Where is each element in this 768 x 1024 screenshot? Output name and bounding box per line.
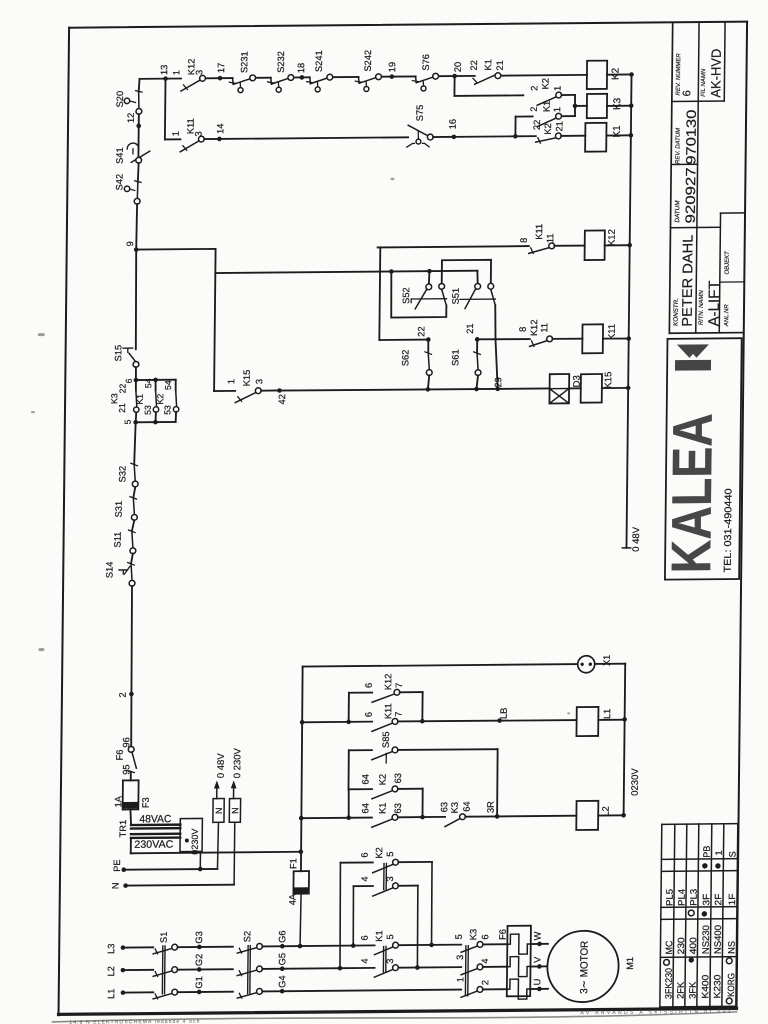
wire top rail [140,75,587,79]
svg-text:0 48V: 0 48V [216,753,227,779]
node above S52 [427,269,432,284]
svg-text:230: 230 [676,937,686,954]
svg-text:K2: K2 [378,774,388,785]
svg-text:S61: S61 [450,349,460,366]
node 16 [433,119,458,139]
wire rail 9 [135,249,216,392]
coil K11 [552,324,618,354]
contact K3 (22-21) [109,380,139,422]
svg-text:1: 1 [226,379,236,384]
wire coil K15 to 48V bus [602,386,631,391]
switch S242 [355,50,382,92]
terminal PE [112,851,218,872]
node L3 bus junction [298,944,303,949]
svg-text:22: 22 [469,60,479,70]
contact K1 NO (2-1) [529,100,575,126]
motor M1 [547,930,635,1002]
wire bottom rail 42-29 [279,386,549,393]
svg-text:6: 6 [360,935,370,940]
svg-text:G5: G5 [277,953,287,965]
wire rail to K12 coil [378,246,529,247]
table row 3FK230 [663,889,674,999]
svg-text:2: 2 [529,86,539,91]
wire L3 row to motor [300,944,548,946]
svg-text:3∼ MOTOR: 3∼ MOTOR [578,940,591,993]
switch S2 [237,931,263,998]
svg-text:A-LIFT: A-LIFT [706,280,723,326]
svg-text:LB: LB [499,708,509,719]
wire top-left corner down [138,79,141,92]
svg-text:TR1: TR1 [118,820,128,838]
svg-text:63: 63 [393,773,403,783]
svg-text:0 230V: 0 230V [232,747,243,778]
svg-text:S52: S52 [401,287,411,304]
node 18 [296,63,306,80]
wire node 9 down to S15 [135,250,137,350]
svg-text:11: 11 [545,233,555,243]
wire S11-S14 [131,554,133,564]
wire from node 13 down to K11 rail [164,79,167,140]
switch S241 [306,50,333,92]
terminal LB [497,708,508,723]
svg-text:S231: S231 [239,51,249,73]
svg-text:21: 21 [495,60,505,70]
contactor K1 pole 1 (6-5) [360,930,399,955]
svg-text:53: 53 [143,405,153,415]
wire corner to S51 [476,271,479,284]
svg-text:6: 6 [364,712,374,717]
wire node20 branch down [454,75,523,96]
KALEA logo block frame [665,338,742,579]
svg-text:K1: K1 [542,101,552,112]
svg-text:22: 22 [532,120,542,130]
svg-text:2: 2 [118,692,128,697]
svg-text:13: 13 [159,65,169,75]
svg-text:96: 96 [121,737,131,747]
svg-text:3FK230: 3FK230 [664,968,674,999]
node 22 [379,247,431,342]
svg-text:64: 64 [360,774,370,784]
contact K1 NC (22-21) [469,59,505,84]
svg-text:6: 6 [124,378,134,383]
svg-text:K2: K2 [374,847,384,858]
svg-text:1: 1 [455,977,465,982]
svg-text:FIL NAMN: FIL NAMN [701,68,707,97]
terminal L2 [106,966,125,977]
contact block bottom node 5 [117,403,176,425]
terminal G1 [178,976,233,994]
wire K1-contact to lower rail [513,116,533,138]
svg-text:54: 54 [163,380,173,390]
svg-text:K2: K2 [543,123,553,134]
wire coil K11 to 48V bus [603,336,631,341]
svg-text:K1: K1 [374,930,384,941]
switch S20 [115,91,142,115]
svg-text:54: 54 [143,378,153,388]
terminal N [111,881,235,889]
table row 3FK [687,889,698,999]
svg-text:S242: S242 [363,50,373,72]
svg-text:L2: L2 [106,966,116,976]
svg-text:12: 12 [126,113,136,123]
svg-text:REV. DATUM: REV. DATUM [675,128,681,164]
svg-text:0230V: 0230V [630,768,641,796]
contact K2 NC (22-21) [515,119,564,143]
svg-text:F3: F3 [141,797,151,808]
svg-text:21: 21 [554,121,564,131]
svg-text:K1: K1 [378,803,388,814]
wire S31-S11 [132,520,134,531]
svg-text:3: 3 [455,955,465,960]
svg-text:S14: S14 [104,561,114,578]
switch S42 [114,163,141,204]
svg-text:NS: NS [727,941,737,954]
svg-text:5: 5 [385,934,395,939]
svg-text:4: 4 [360,958,370,963]
svg-text:K12: K12 [383,674,393,691]
svg-text:K3: K3 [612,97,623,110]
switch S75 [407,105,434,147]
svg-text:22: 22 [416,326,426,336]
contact K1 (54-53) [134,380,159,422]
terminal G6 [262,930,300,948]
svg-text:PL3: PL3 [689,889,699,906]
wire L1 to bus [598,719,624,721]
motor terminal V [530,956,547,969]
wire coil K1 to 48V bus [606,133,633,138]
svg-text:F6: F6 [115,749,125,760]
svg-text:L3: L3 [106,944,116,954]
svg-text:K230: K230 [712,974,722,998]
svg-text:3F: 3F [701,893,711,905]
transformer TR1 [118,809,181,851]
svg-text:2: 2 [529,106,539,111]
svg-text:AK-HVD: AK-HVD [708,48,724,97]
svg-text:N: N [111,882,121,889]
svg-text:S32: S32 [117,466,127,483]
svg-text:PE: PE [112,859,122,871]
svg-text:3R: 3R [486,801,496,813]
svg-text:K2: K2 [155,394,165,405]
svg-text:4: 4 [360,876,370,881]
svg-text:K15: K15 [242,370,252,387]
svg-text:6: 6 [681,90,693,96]
switch S231 contact [229,75,255,93]
wire 16 to latch column [454,135,516,138]
node 20 [452,62,463,79]
selection table grid [660,824,738,1007]
svg-text:3: 3 [194,131,204,136]
bridge wire S52 to S51 [442,260,491,284]
wire S14 to node 2 [131,586,133,694]
main switch S1 [153,931,179,998]
terminal L1 [106,988,125,999]
svg-text:64: 64 [462,801,472,811]
terminal L3 [106,943,125,954]
svg-text:17: 17 [216,63,226,73]
terminal box 0230V [180,818,202,854]
supply output 0 48V [212,753,227,869]
coil K15 [569,372,614,403]
contactor K3 pole 1 (5-6) [454,929,491,953]
switch S242 contact [355,74,381,92]
contact K2 (64-63) [348,773,423,818]
svg-text:9: 9 [125,241,135,246]
svg-text:4: 4 [480,958,490,963]
contactor K1 pole 2 (4-3) [340,958,461,978]
svg-text:3: 3 [254,379,264,384]
wire coil K12 to 48V bus [605,243,632,248]
fuse-switch F6 (95-96) [114,694,137,775]
contact K11 (8-11) [519,224,556,254]
svg-text:PL5: PL5 [665,889,675,906]
switch S51 [451,283,496,308]
svg-text:REV. NUMMER: REV. NUMMER [676,53,682,96]
svg-text:5: 5 [385,852,395,857]
svg-text:6: 6 [364,683,374,688]
svg-text:920927: 920927 [683,167,699,223]
svg-text:1: 1 [714,850,724,855]
bus left vertical [298,667,305,872]
coil K3 [587,94,624,119]
svg-text:PETER DAHL: PETER DAHL [679,234,696,326]
svg-text:1: 1 [171,70,181,75]
svg-text:DATUM: DATUM [674,200,681,223]
svg-text:S232: S232 [276,51,286,73]
svg-text:L1: L1 [106,989,116,999]
node 19 [387,62,397,79]
thermal overload F6 [497,926,531,1000]
svg-text:K11: K11 [383,703,393,719]
svg-text:K3: K3 [468,929,478,940]
svg-text:ANL.NR: ANL.NR [724,304,730,328]
svg-text:G6: G6 [277,930,287,942]
contactor K3 pole 2 (3-4) [455,954,507,975]
switch S32 [117,463,138,487]
switch S76 [412,54,438,91]
inductor L2 [497,801,611,831]
svg-text:16: 16 [448,119,458,129]
table row K230 [712,850,724,998]
switch S241 contact [306,74,332,92]
wire coil K2 to 48V bus [607,72,634,77]
svg-text:G2: G2 [194,954,204,966]
svg-text:64: 64 [360,803,370,813]
contact K12 (8-11) [518,319,553,346]
svg-text:K1: K1 [483,59,493,70]
wire X1 lamp row [303,664,626,667]
switch S41 emergency stop [115,126,150,164]
svg-text:S2: S2 [242,931,252,942]
svg-text:S11: S11 [113,532,123,548]
KALEA logo mark triangle [677,344,709,358]
wire transformer to bus [131,836,304,855]
switch S31 [114,497,138,521]
svg-text:K1: K1 [135,394,145,405]
svg-text:K12: K12 [529,319,539,336]
contactor K3 pole 3 (1-2) [455,977,507,998]
svg-text:L1: L1 [602,709,612,719]
svg-text:19: 19 [387,62,397,72]
contact K1 (64-63) [301,789,425,828]
svg-text:4A: 4A [287,893,297,905]
node 17 [216,63,226,81]
svg-text:KALEA: KALEA [659,413,724,574]
node 22 top junction [389,269,447,318]
svg-text:1: 1 [553,86,563,91]
motor terminal W [532,931,542,946]
svg-text:PB: PB [702,846,712,858]
wire S51 blade down to node 29 branch [494,305,498,389]
svg-text:3: 3 [194,70,204,75]
wire phase rows into S1 [122,947,153,992]
svg-text:18: 18 [296,63,306,73]
svg-text:5: 5 [454,934,464,939]
fuse F1 4A [287,858,309,946]
rectifier D3 [549,374,582,404]
svg-text:6: 6 [480,934,490,939]
contactor K2 pole 1 (6-5) [338,847,435,971]
svg-text:PL4: PL4 [677,889,687,906]
switch S14 [104,561,135,586]
svg-text:S: S [728,851,738,857]
switch S232 [267,51,294,92]
coil K12 [554,229,618,260]
contact K12 (6-7) branch [349,673,423,722]
svg-text:NS400: NS400 [713,925,723,954]
svg-text:400: 400 [688,937,698,954]
svg-text:7: 7 [393,711,403,716]
svg-text:V: V [532,956,542,963]
svg-text:3FK: 3FK [688,981,698,999]
contact K11 (6-7) [302,702,577,732]
wire coil K3 to 48V bus [607,103,634,108]
switch S61 [450,339,481,389]
svg-text:N: N [230,807,240,814]
wire rail 14 to S75 [219,137,408,139]
svg-text:63: 63 [393,803,403,813]
wire S15 to contact block [135,367,137,380]
contactor K2 linkage [384,863,387,889]
svg-text:K15: K15 [603,372,614,389]
svg-text:F1: F1 [288,858,298,869]
svg-text:42: 42 [277,394,287,404]
contact K2 NO (2-1) [529,78,562,105]
bus 0 48V [622,74,647,552]
svg-text:53: 53 [162,405,172,415]
contact block K3/K1/K2 top node 6 [117,377,175,393]
svg-text:S20: S20 [115,91,125,108]
svg-text:S75: S75 [415,105,425,122]
svg-text:N: N [214,807,224,814]
svg-text:2: 2 [480,980,490,985]
motor terminal U [530,979,548,992]
svg-text:63: 63 [439,802,449,812]
switch S85 branch [348,730,498,817]
svg-text:MC: MC [664,940,674,954]
svg-text:11: 11 [539,323,549,333]
svg-text:K2: K2 [540,78,550,89]
svg-text:K3: K3 [450,802,460,813]
wire rail 21 to K12 contact [477,338,530,341]
svg-text:S85: S85 [381,731,391,748]
switch S15 [113,345,139,368]
svg-text:K12: K12 [607,229,618,246]
svg-text:G4: G4 [277,975,287,987]
wire to K3 coil node [561,95,587,116]
supply output 0 230V [229,747,244,884]
bottom scan shadow [52,1012,736,1022]
coil K2 [587,60,622,89]
svg-text:RITN. NAMN: RITN. NAMN [699,290,705,326]
terminal G2 [177,953,232,971]
wire block to S32 [134,422,135,464]
terminal G4 [262,974,461,994]
svg-text:K3: K3 [109,393,119,404]
contact K11 (1-3) [165,118,205,152]
bottom edge smudge text [69,1009,730,1024]
terminal G5 [262,952,340,971]
svg-text:S76: S76 [421,54,431,71]
svg-text:K11: K11 [607,324,618,340]
svg-text:S51: S51 [451,288,461,305]
wire S42 to node 9 [135,204,138,250]
node 14 [204,124,225,142]
svg-text:8: 8 [519,238,529,243]
svg-text:U: U [532,979,542,986]
node 29 [493,377,503,391]
node 12 [126,113,141,129]
svg-text:22: 22 [117,384,127,394]
node 2 [118,692,134,698]
svg-text:M1: M1 [625,957,635,970]
svg-text:21: 21 [117,403,127,413]
KALEA logo mark bar [675,360,711,371]
contact K12 (13-3) [181,58,206,91]
svg-text:W: W [532,931,542,940]
switch S231 [229,51,256,92]
svg-text:OBJEKT: OBJEKT [725,250,731,275]
wire rail to S52/S51 [215,271,477,273]
svg-text:G3: G3 [194,931,204,943]
bus 0230V vertical [621,664,642,818]
terminal G3 [178,931,233,949]
svg-text:230VAC: 230VAC [134,838,174,850]
svg-text:G1: G1 [194,976,204,988]
decorative scan smudges [28,176,576,719]
svg-text:X1: X1 [602,655,612,666]
svg-text:14.8 N ELEKTROSCHEMA ledande 4: 14.8 N ELEKTROSCHEMA ledande 4 och [69,1019,199,1024]
table row KORG [726,851,738,1004]
svg-text:20: 20 [453,62,463,72]
svg-text:S62: S62 [400,350,410,367]
switch S52 [401,283,447,309]
switch S62 [400,340,432,390]
svg-text:S241: S241 [314,50,324,72]
svg-text:NS230: NS230 [701,925,711,954]
lamp X1 [578,655,612,673]
contactor K1 linkage [383,946,386,971]
wire L2 to bus [598,814,623,816]
svg-text:29: 29 [493,377,503,387]
svg-text:1F: 1F [727,893,737,905]
contact K15 (1-3) [214,370,264,403]
svg-text:14: 14 [215,124,225,134]
svg-text:7: 7 [394,683,404,688]
node 9 [125,241,139,252]
coil K1 [561,123,623,152]
svg-text:6: 6 [360,852,370,857]
